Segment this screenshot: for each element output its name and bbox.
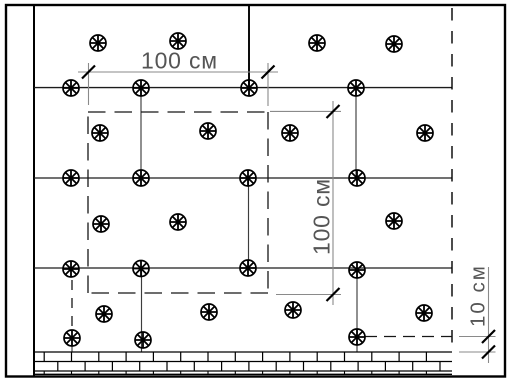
- dashed bottom row line y=336.5: [365, 336, 452, 338]
- dowel fastener D1 (row y=88): [63, 80, 79, 96]
- dashed boundary line x=452 (insulation zone edge): [451, 8, 453, 352]
- dowel stem x=72 to plinth: [71, 344, 73, 352]
- dimension: right 10 cm - tick marks: [482, 330, 495, 359]
- board vertical joint row2 x=141: [140, 88, 142, 178]
- dowel fastener D22 (field r2): [282, 125, 298, 141]
- dowel fastener D29 (field r4): [285, 302, 301, 318]
- dowel fastener D21 (field r2): [200, 123, 216, 139]
- dimension: right 10 cm - dim line: [488, 267, 490, 363]
- board vertical joint row1 x=249: [248, 5, 250, 88]
- dowel fastener D3 (row y=88): [241, 80, 257, 96]
- dowel fastener D28 (field r4): [201, 304, 217, 320]
- board vertical joint row3 x=249: [248, 178, 250, 268]
- dowel fastener D18 (field r1): [309, 35, 325, 51]
- dowel fastener D15 (row y=338): [349, 329, 365, 345]
- dowel fastener D30 (field r4): [416, 305, 432, 321]
- dimension: vertical 100 cm - tick marks: [327, 105, 340, 301]
- brick plinth course 2 head joints: [58, 362, 440, 372]
- dowel fastener D16 (field r1): [90, 35, 106, 51]
- dimension: right 10 cm - extension lines: [459, 337, 496, 353]
- dowel fastener D11 (row y=268): [240, 260, 256, 276]
- dowel fastener D27 (field r4): [96, 306, 112, 322]
- dimension: horizontal 100 cm - tick marks: [82, 66, 275, 79]
- dowel fastener D7 (row y=178): [240, 170, 256, 186]
- dowel fastener D4 (row y=88): [348, 80, 364, 96]
- dowel fastener D19 (field r1): [386, 36, 402, 52]
- svg-text:100 см: 100 см: [309, 178, 335, 255]
- svg-text:100 см: 100 см: [141, 48, 218, 74]
- dowel fastener D8 (row y=178): [349, 170, 365, 186]
- dowel fastener D25 (field r3): [170, 214, 186, 230]
- dowel fastener D20 (field r2): [92, 125, 108, 141]
- dimension: vertical 100 cm - dim line: [332, 101, 334, 305]
- board vertical joint row2 x=356: [355, 88, 357, 178]
- board vertical joint row4 x=142: [141, 268, 143, 352]
- brick plinth course 3 head joints: [44, 371, 426, 374]
- dimension: horizontal 100 cm - extension lines: [89, 63, 269, 106]
- dowel fastener D12 (row y=268): [349, 262, 365, 278]
- dowel fastener D14 (row y=338): [135, 332, 151, 348]
- dowel fastener D23 (field r2): [417, 125, 433, 141]
- dowel fastener D13 (row y=338): [64, 330, 80, 346]
- dowel fastener D6 (row y=178): [133, 170, 149, 186]
- dowel fastener D24 (field r3): [93, 216, 109, 232]
- board vertical joint row4 x=357: [356, 268, 358, 352]
- dowel fastener D9 (row y=268): [63, 261, 79, 277]
- dimension: horizontal 100 cm - dim line: [78, 71, 278, 73]
- svg-text:10 см: 10 см: [467, 264, 490, 327]
- brick plinth course 1 head joints: [44, 352, 426, 362]
- dashed line x=72 bottom left: [71, 280, 73, 332]
- dimension: vertical 100 cm - extension lines: [270, 111, 341, 294]
- dowel fastener D26 (field r3): [386, 213, 402, 229]
- dashed 1m x 1m reference square: [88, 112, 268, 293]
- insulation board horizontal joint y=88: [34, 87, 452, 89]
- brick plinth band horizontal courses: [34, 352, 452, 374]
- wall corner edge line (left reveal): [33, 5, 35, 376]
- dowel fastener D2 (row y=88): [133, 80, 149, 96]
- dowel fastener D5 (row y=178): [63, 170, 79, 186]
- insulation board horizontal joint y=268: [34, 267, 452, 269]
- dowel fastener D10 (row y=268): [133, 261, 149, 277]
- insulation board horizontal joint y=178: [34, 177, 452, 179]
- dowel fastener D17 (field r1): [170, 33, 186, 49]
